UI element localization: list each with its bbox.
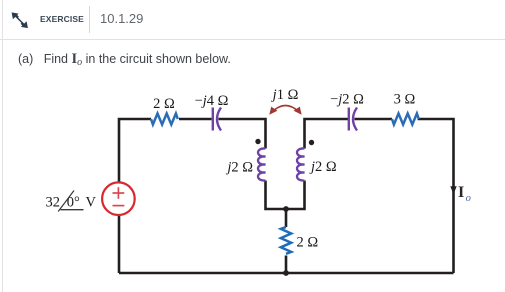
svg-text:−j2 Ω: −j2 Ω <box>330 92 364 108</box>
wire: left branch below coil to bottom node bar <box>266 181 305 210</box>
svg-text:V: V <box>86 195 97 211</box>
wire: top rail from -j4 capacitor to left branch corner <box>219 119 266 149</box>
svg-text:3 Ω: 3 Ω <box>394 92 416 108</box>
voltage source Vs circle <box>102 182 135 215</box>
wire: source bottom lead <box>118 215 121 273</box>
current arrow Io <box>450 186 456 194</box>
resistor 2ohm (vertical) <box>281 227 291 254</box>
inductor L1 j2ohm (left coil) <box>258 148 266 180</box>
resistor R 2ohm (top) <box>151 114 178 125</box>
label 32 angle 0 V <box>46 195 97 211</box>
svg-text:2 Ω: 2 Ω <box>297 235 319 251</box>
capacitor -j4ohm <box>213 108 221 131</box>
wire: top rail between -j2 capacitor and 3ohm resistor <box>355 118 393 121</box>
inductor L2 j2ohm (right coil) <box>297 148 305 180</box>
wire: top rail between 2ohm resistor and -j4 capacitor <box>179 118 212 121</box>
source minus sign <box>113 205 125 207</box>
svg-text:2 Ω: 2 Ω <box>153 96 175 112</box>
wire: left vertical top (source top lead) <box>119 119 151 183</box>
svg-text:o: o <box>466 193 471 204</box>
capacitor -j2ohm <box>349 108 357 131</box>
svg-text:I: I <box>458 184 464 201</box>
coupling dot right <box>309 140 314 145</box>
svg-text:j2 Ω: j2 Ω <box>309 159 337 175</box>
header icon: diagonal double arrow <box>9 9 31 31</box>
node: bottom junction dot <box>283 270 289 276</box>
node: center junction dot <box>283 206 289 212</box>
svg-text:32: 32 <box>46 195 61 211</box>
svg-text:−j4 Ω: −j4 Ω <box>195 93 229 109</box>
resistor 3ohm (top right) <box>392 114 419 125</box>
mutual inductance arrow j1ohm <box>273 106 299 112</box>
coupling dot left <box>255 139 260 144</box>
source plus sign <box>113 187 125 205</box>
wire: right branch top <box>305 119 349 149</box>
svg-text:j1 Ω: j1 Ω <box>271 87 299 103</box>
wire: center stub node to 2ohm vertical resistor <box>285 209 288 227</box>
wire: bottom rail <box>119 272 454 275</box>
wire: 2ohm vertical resistor to bottom rail <box>285 256 288 274</box>
svg-text:j2 Ω: j2 Ω <box>225 160 253 176</box>
wire: top rail right corner down <box>418 119 454 273</box>
